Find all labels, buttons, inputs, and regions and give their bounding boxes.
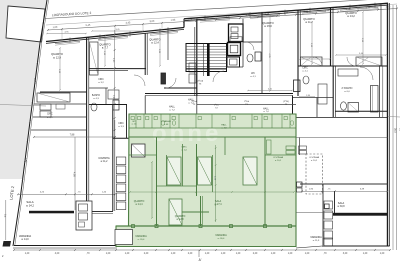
svg-text:QUARTO: QUARTO <box>134 200 145 203</box>
svg-text:a: 3,3: a: 3,3 <box>118 126 124 128</box>
svg-text:COZINHA: COZINHA <box>98 157 110 160</box>
svg-text:CIRC: CIRC <box>118 123 124 125</box>
svg-text:36,5: 36,5 <box>394 128 397 133</box>
svg-text:1,40: 1,40 <box>271 253 276 255</box>
svg-text:(2ºDf): (2ºDf) <box>283 100 289 103</box>
svg-text:a: 7,7: a: 7,7 <box>102 47 109 50</box>
svg-text:7,88: 7,88 <box>70 134 75 137</box>
svg-text:5,45: 5,45 <box>86 24 91 27</box>
svg-text:2,40: 2,40 <box>188 253 193 255</box>
svg-text:a: 20,4: a: 20,4 <box>138 239 145 241</box>
svg-text:WC: WC <box>251 73 255 75</box>
svg-text:a: 10,1: a: 10,1 <box>275 160 282 162</box>
svg-text:1,40: 1,40 <box>25 253 30 255</box>
svg-text:4,20: 4,20 <box>55 253 60 255</box>
svg-text:1,23: 1,23 <box>386 5 391 8</box>
svg-text:1,20: 1,20 <box>305 253 310 255</box>
svg-text:1,00: 1,00 <box>53 26 58 29</box>
svg-text:A': A' <box>199 258 202 262</box>
svg-text:a: 13,2: a: 13,2 <box>347 15 355 18</box>
svg-text:a: 12,4: a: 12,4 <box>151 42 159 45</box>
svg-text:a: 7,4: a: 7,4 <box>263 111 269 113</box>
svg-text:3,40: 3,40 <box>343 253 348 255</box>
svg-text:1,40: 1,40 <box>171 253 176 255</box>
svg-text:4,43: 4,43 <box>126 21 131 24</box>
svg-text:1,20: 1,20 <box>288 253 293 255</box>
svg-text:VARANDA: VARANDA <box>135 235 147 238</box>
svg-text:a: 10,1: a: 10,1 <box>311 160 318 162</box>
svg-text:1,93: 1,93 <box>171 19 176 22</box>
svg-text:a: 15,0: a: 15,0 <box>264 25 272 28</box>
svg-text:a: 4,1: a: 4,1 <box>250 76 256 78</box>
svg-text:a: 3,2: a: 3,2 <box>98 82 104 84</box>
svg-text:1,40: 1,40 <box>205 253 210 255</box>
svg-text:BANHO: BANHO <box>92 94 100 97</box>
svg-text:VARANDA: VARANDA <box>310 236 322 239</box>
svg-text:1,40: 1,40 <box>363 253 368 255</box>
svg-text:2ºDe: 2ºDe <box>214 104 220 107</box>
svg-text:a: 4,9: a: 4,9 <box>47 117 53 119</box>
svg-text:2,40: 2,40 <box>253 253 258 255</box>
svg-text:2ºDd: 2ºDd <box>192 100 198 103</box>
svg-text:(2ºDd): (2ºDd) <box>197 80 204 83</box>
svg-text:a: 6,0: a: 6,0 <box>344 91 350 93</box>
svg-text:COZINHA: COZINHA <box>273 156 283 159</box>
svg-text:a: 30,8: a: 30,8 <box>337 206 345 208</box>
svg-text:a: 30,4: a: 30,4 <box>218 238 225 240</box>
svg-text:onne: onne <box>152 120 221 147</box>
svg-text:a: 34,2: a: 34,2 <box>26 203 34 207</box>
svg-text:HALL: HALL <box>221 124 227 127</box>
svg-text:1,20: 1,20 <box>106 253 111 255</box>
svg-text:1,20: 1,20 <box>380 253 385 255</box>
svg-text:SALA: SALA <box>338 202 345 205</box>
svg-text:a: 11,3: a: 11,3 <box>313 240 320 242</box>
svg-text:VARANDA: VARANDA <box>215 234 227 237</box>
svg-text:C. BANHO: C. BANHO <box>161 120 171 123</box>
svg-text:3,00: 3,00 <box>150 20 155 23</box>
svg-text:1,40: 1,40 <box>221 253 226 255</box>
svg-text:1,40: 1,40 <box>125 253 130 255</box>
svg-text:a: 4,8: a: 4,8 <box>221 127 227 129</box>
svg-text:a: 12,9: a: 12,9 <box>53 55 61 59</box>
svg-text:HALL: HALL <box>263 108 269 111</box>
svg-text:a: 2,6: a: 2,6 <box>132 124 137 126</box>
svg-text:CIRC: CIRC <box>47 114 53 116</box>
svg-text:a: 14,0: a: 14,0 <box>21 238 29 241</box>
svg-text:COZINHA: COZINHA <box>309 156 319 159</box>
svg-text:a: 12,8: a: 12,8 <box>176 219 184 221</box>
svg-text:a: 14,4: a: 14,4 <box>135 204 143 206</box>
svg-text:HALL: HALL <box>169 106 176 109</box>
svg-text:QUARTO: QUARTO <box>175 215 186 218</box>
svg-text:a: 4,3: a: 4,3 <box>93 98 99 100</box>
svg-text:CIRC: CIRC <box>98 79 104 81</box>
svg-text:a: 4,1: a: 4,1 <box>302 71 308 73</box>
svg-text:2,40: 2,40 <box>144 253 149 255</box>
svg-text:a: 7,2: a: 7,2 <box>169 110 175 112</box>
svg-text:1,40: 1,40 <box>236 253 241 255</box>
svg-text:2ºDd: 2ºDd <box>244 100 250 103</box>
svg-text:a: 11,2: a: 11,2 <box>101 161 109 163</box>
svg-text:CIRC: CIRC <box>302 68 308 70</box>
svg-text:4,90: 4,90 <box>73 172 76 177</box>
